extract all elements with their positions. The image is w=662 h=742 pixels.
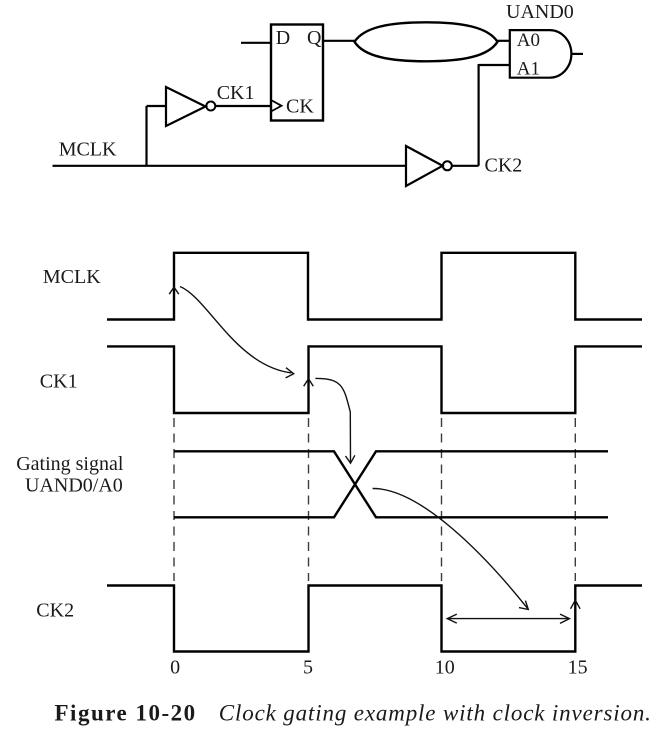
svg-text:Q: Q — [307, 27, 322, 49]
svg-text:10: 10 — [435, 657, 455, 679]
svg-text:0: 0 — [170, 657, 180, 679]
svg-text:MCLK: MCLK — [59, 138, 117, 160]
svg-text:Gating signal: Gating signal — [16, 453, 124, 475]
svg-text:A1: A1 — [517, 59, 540, 80]
svg-text:CK1: CK1 — [40, 370, 78, 392]
svg-text:UAND0/A0: UAND0/A0 — [25, 475, 123, 497]
svg-text:15: 15 — [568, 657, 588, 679]
svg-text:CK1: CK1 — [217, 82, 255, 104]
svg-text:A0: A0 — [517, 30, 540, 51]
svg-text:Clock gating example with cloc: Clock gating example with clock inversio… — [219, 701, 652, 726]
svg-text:5: 5 — [303, 657, 313, 679]
svg-text:CK2: CK2 — [36, 599, 74, 621]
svg-text:MCLK: MCLK — [43, 266, 101, 288]
svg-text:UAND0: UAND0 — [506, 1, 574, 23]
svg-text:Figure 10-20: Figure 10-20 — [55, 701, 197, 726]
svg-text:D: D — [276, 27, 290, 49]
svg-text:CK2: CK2 — [485, 155, 523, 177]
svg-text:CK: CK — [286, 95, 314, 117]
